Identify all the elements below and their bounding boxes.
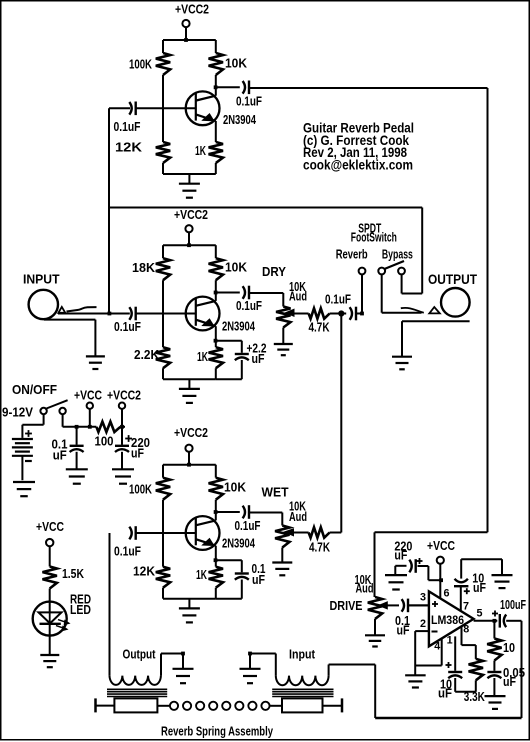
svg-text:4.7K: 4.7K: [309, 540, 330, 555]
svg-text:DRY: DRY: [262, 264, 286, 279]
svg-text:100: 100: [95, 434, 114, 449]
svg-text:1K: 1K: [195, 143, 206, 158]
svg-text:10: 10: [503, 640, 515, 655]
svg-text:Aud: Aud: [289, 509, 307, 524]
svg-text:1.5K: 1.5K: [62, 566, 84, 581]
svg-text:0.1uF: 0.1uF: [236, 298, 262, 313]
svg-text:Reverb: Reverb: [336, 247, 368, 262]
svg-text:3.3K: 3.3K: [464, 689, 485, 704]
svg-text:Bypass: Bypass: [382, 247, 413, 262]
svg-text:Output: Output: [123, 647, 157, 662]
svg-text:WET: WET: [262, 485, 289, 500]
svg-text:uF: uF: [503, 674, 516, 689]
svg-text:0.1uF: 0.1uF: [114, 119, 141, 134]
svg-text:Aud: Aud: [356, 581, 374, 596]
svg-text:4.7K: 4.7K: [309, 320, 330, 335]
svg-text:cook@eklektix.com: cook@eklektix.com: [303, 157, 413, 172]
svg-text:+VCC2: +VCC2: [174, 425, 208, 440]
svg-text:+VCC: +VCC: [36, 519, 64, 534]
svg-text:Aud: Aud: [289, 289, 307, 304]
svg-text:uF: uF: [53, 448, 67, 463]
svg-text:OUTPUT: OUTPUT: [428, 272, 478, 287]
svg-text:LM386: LM386: [431, 613, 464, 627]
svg-text:uF: uF: [131, 446, 144, 461]
svg-text:uF: uF: [473, 580, 486, 595]
svg-text:2: 2: [420, 618, 426, 630]
svg-text:10K: 10K: [225, 260, 248, 275]
svg-text:8: 8: [463, 624, 469, 636]
svg-text:FootSwitch: FootSwitch: [351, 230, 397, 245]
svg-text:1K: 1K: [197, 349, 208, 364]
svg-text:4: 4: [434, 641, 441, 653]
svg-text:0.1uF: 0.1uF: [114, 544, 141, 559]
svg-text:18K: 18K: [132, 260, 156, 275]
svg-text:ON/OFF: ON/OFF: [12, 382, 57, 397]
svg-text:2N3904: 2N3904: [223, 112, 257, 127]
svg-text:100uF: 100uF: [500, 597, 526, 612]
svg-text:+VCC2: +VCC2: [107, 388, 141, 403]
svg-text:uF: uF: [394, 548, 407, 563]
svg-text:12K: 12K: [115, 140, 143, 155]
svg-text:10K: 10K: [224, 480, 247, 495]
svg-text:2N3904: 2N3904: [222, 319, 256, 334]
svg-text:+VCC: +VCC: [74, 388, 102, 403]
svg-text:Reverb Spring Assembly: Reverb Spring Assembly: [161, 724, 274, 739]
svg-text:3: 3: [420, 592, 426, 604]
svg-text:0.1uF: 0.1uF: [114, 319, 141, 334]
svg-text:100K: 100K: [129, 482, 152, 497]
svg-text:INPUT: INPUT: [23, 272, 60, 287]
svg-text:uF: uF: [252, 572, 265, 587]
svg-text:Input: Input: [289, 647, 316, 662]
svg-text:0.1uF: 0.1uF: [325, 292, 351, 307]
svg-text:100K: 100K: [129, 57, 152, 72]
svg-text:0.1uF: 0.1uF: [235, 518, 261, 533]
svg-text:LED: LED: [70, 602, 91, 617]
svg-text:2.2K: 2.2K: [134, 347, 160, 362]
svg-text:0.1uF: 0.1uF: [236, 94, 262, 109]
svg-text:9-12V: 9-12V: [2, 405, 33, 420]
svg-text:uF: uF: [252, 351, 265, 366]
svg-text:uF: uF: [397, 623, 410, 638]
svg-text:uF: uF: [438, 686, 452, 701]
svg-text:+VCC2: +VCC2: [175, 2, 209, 17]
svg-text:DRIVE: DRIVE: [330, 598, 363, 613]
svg-text:6: 6: [444, 588, 450, 600]
svg-text:2N3904: 2N3904: [222, 536, 256, 551]
svg-text:+VCC2: +VCC2: [174, 207, 208, 222]
svg-text:+VCC: +VCC: [427, 538, 455, 553]
svg-text:1: 1: [447, 635, 453, 647]
svg-text:10K: 10K: [225, 56, 248, 71]
svg-text:5: 5: [477, 608, 483, 620]
svg-text:7: 7: [463, 601, 469, 613]
svg-text:12K: 12K: [133, 564, 156, 579]
svg-text:1K: 1K: [196, 567, 207, 582]
